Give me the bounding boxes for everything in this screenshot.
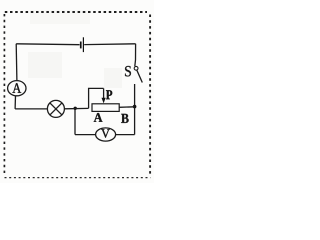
wire: top-right horizontal (battery positive to right corner) — [84, 43, 135, 46]
switch S pivot contact circle — [134, 66, 138, 70]
node: junction dot at B wire and right vertical — [133, 105, 137, 109]
battery cell: long thin positive plate — [83, 37, 84, 52]
label P — [106, 90, 112, 99]
lamp L1 cross stroke 2 — [50, 103, 62, 115]
wire: left vertical from ammeter top to top-left corner — [15, 44, 18, 81]
rheostat slider arrow shaft — [103, 88, 105, 99]
voltmeter V1 body — [96, 128, 116, 141]
lamp L1 body circle — [47, 100, 64, 117]
wire: top-left horizontal (battery negative to left corner) — [16, 43, 79, 46]
wire: right vertical down to switch — [134, 44, 137, 67]
wire: left vertical up to ammeter bottom — [14, 96, 16, 109]
rheostat R body box — [92, 104, 119, 112]
rheostat slider arrowhead P — [102, 98, 106, 104]
wire: voltmeter riser up to lamp wire junction — [74, 108, 76, 134]
ammeter A1 body — [8, 81, 26, 96]
voltmeter V1 letter — [101, 129, 110, 138]
wire: lamp left to left vertical — [15, 108, 47, 110]
wire: lamp right to slider riser — [64, 107, 88, 109]
node: junction dot on lamp wire — [74, 107, 77, 110]
lamp L1 cross stroke 1 — [50, 103, 62, 115]
wire: slider riser up and over to arrow — [89, 88, 104, 108]
wire: bottom horizontal to voltmeter right — [116, 134, 135, 136]
label A (rheostat left end) — [94, 113, 103, 122]
wire: right vertical from switch down to bottom corner — [134, 84, 136, 135]
wire: rheostat terminal B to right vertical — [119, 106, 135, 109]
wire: voltmeter left to riser — [75, 134, 96, 136]
switch S open blade — [137, 70, 142, 82]
battery cell: short thick negative plate — [80, 42, 82, 49]
label S — [125, 66, 131, 76]
ammeter A1 letter — [12, 83, 21, 93]
label B (rheostat right end) — [121, 114, 128, 123]
